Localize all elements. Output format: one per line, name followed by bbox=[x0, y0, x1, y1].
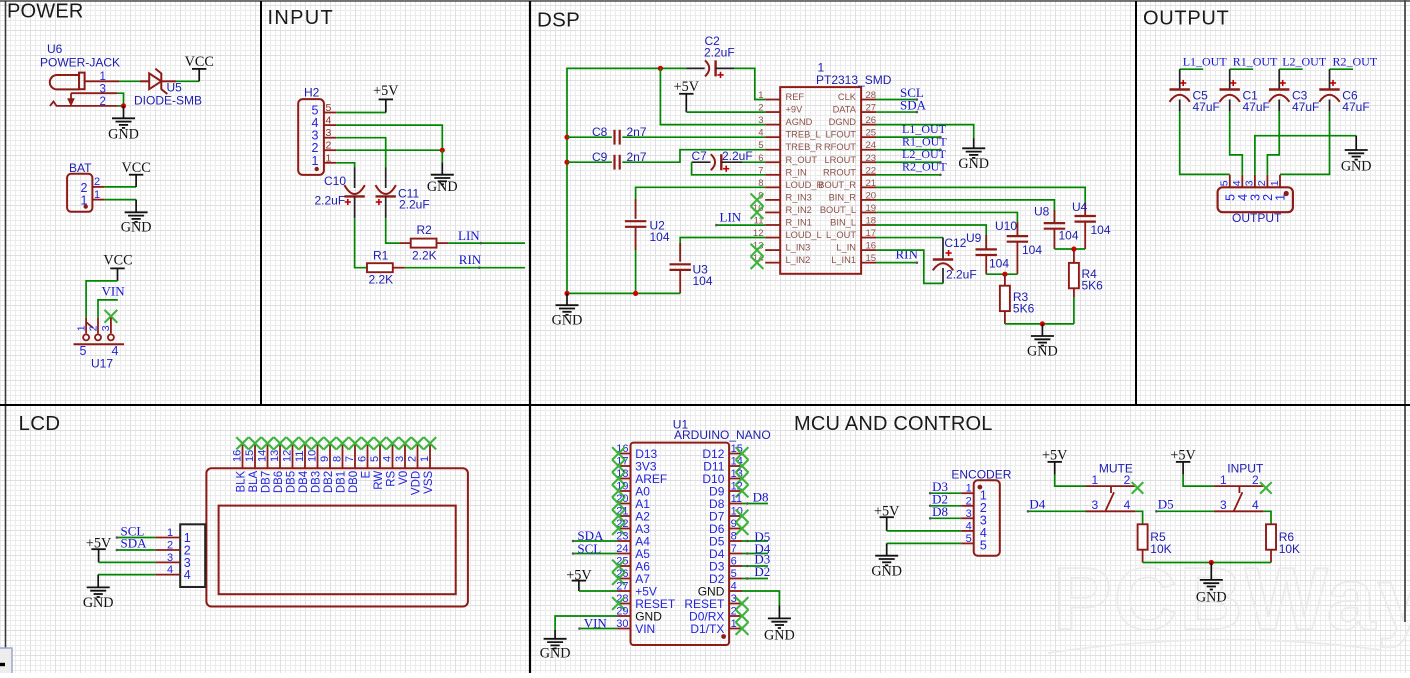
junction switch gnd bbox=[1209, 560, 1214, 565]
PT2313 pin 17 L_OUT bbox=[826, 228, 876, 240]
svg-text:VIN: VIN bbox=[635, 622, 655, 636]
no-connect LCD pin 15 bbox=[249, 437, 261, 449]
no-connect LCD pin 4 bbox=[386, 437, 398, 449]
wire C10 to R1 bbox=[355, 218, 367, 268]
capacitor U4 bbox=[1075, 203, 1096, 249]
svg-text:4: 4 bbox=[1252, 498, 1259, 512]
no-connect LCD pin 6 bbox=[361, 437, 373, 449]
svg-text:LCD: LCD bbox=[19, 412, 61, 435]
power flag VCC (BAT) bbox=[122, 160, 151, 187]
junction node jack bbox=[121, 103, 126, 108]
svg-text:1: 1 bbox=[100, 71, 106, 83]
svg-text:C10: C10 bbox=[324, 174, 346, 188]
net label D3 (mcu) bbox=[742, 565, 768, 567]
svg-text:3: 3 bbox=[100, 83, 106, 95]
svg-text:D1/TX: D1/TX bbox=[690, 622, 724, 636]
svg-text:2: 2 bbox=[1124, 473, 1131, 487]
no-connect pin 3 bbox=[736, 597, 749, 610]
svg-text:16: 16 bbox=[232, 450, 244, 462]
ARDUINO pin 1 D1/TX bbox=[690, 618, 742, 636]
svg-text:15: 15 bbox=[244, 450, 256, 462]
svg-text:2: 2 bbox=[167, 540, 173, 552]
svg-text:3: 3 bbox=[394, 456, 406, 462]
capacitor C9 bbox=[615, 155, 620, 170]
wire pin2 to node bbox=[117, 105, 124, 107]
ARDUINO pin 19 A0 bbox=[616, 481, 650, 499]
ARDUINO pin 12 D9 bbox=[709, 481, 743, 499]
svg-text:D5: D5 bbox=[1158, 496, 1174, 511]
H2 pin 4 stub bbox=[324, 124, 336, 126]
ground mcu right bbox=[764, 605, 795, 643]
svg-text:2.2uF: 2.2uF bbox=[315, 194, 346, 208]
OUTPUT pin 2 stub bbox=[1266, 175, 1268, 188]
H2 pin 3 stub bbox=[324, 137, 336, 139]
wire pin4 to ground bbox=[742, 591, 779, 605]
LCD module outer body bbox=[206, 468, 468, 606]
ground DSP right bbox=[1027, 324, 1058, 360]
OUTPUT pin 5 stub bbox=[1229, 175, 1231, 188]
svg-text:2.2K: 2.2K bbox=[412, 249, 437, 263]
svg-text:R1: R1 bbox=[373, 249, 389, 263]
svg-text:VSS: VSS bbox=[423, 470, 435, 493]
svg-text:3: 3 bbox=[1244, 180, 1256, 186]
svg-text:RIN: RIN bbox=[896, 246, 919, 261]
ARDUINO pin 13 D10 bbox=[702, 468, 742, 486]
OUTPUT pin 1 stub bbox=[1279, 175, 1281, 188]
PT2313 pin 14 L_IN2 bbox=[753, 253, 810, 265]
svg-text:1: 1 bbox=[731, 618, 737, 630]
wire C11 to R2 bbox=[386, 218, 400, 243]
no-connect pin 10 bbox=[736, 510, 749, 523]
ARDUINO pin 17 3V3 bbox=[616, 456, 657, 474]
ENCODER pin-1 mark bbox=[978, 485, 983, 490]
PT2313 pin 7 R_IN bbox=[758, 165, 806, 177]
svg-text:8: 8 bbox=[731, 531, 737, 543]
no-connect pin 16 bbox=[612, 447, 625, 460]
svg-text:1: 1 bbox=[1269, 180, 1281, 186]
net label D5 (mcu) bbox=[742, 540, 768, 542]
wire BAT pin1 to GND bbox=[104, 199, 136, 201]
svg-text:5K6: 5K6 bbox=[1013, 302, 1035, 316]
svg-text:4: 4 bbox=[167, 564, 173, 576]
power jack pin 1 stub bbox=[85, 80, 119, 82]
BAT pin 2 stub bbox=[92, 186, 104, 188]
switch MUTE bbox=[1086, 486, 1136, 511]
svg-text:3: 3 bbox=[1092, 498, 1099, 512]
wire U8-U4 bottom rail bbox=[1054, 248, 1085, 250]
svg-text:3: 3 bbox=[326, 127, 332, 139]
ground OUTPUT bbox=[1341, 136, 1372, 175]
svg-text:5: 5 bbox=[731, 568, 737, 580]
net label D3 (encoder) bbox=[930, 492, 961, 494]
ARDUINO pin 28 RESET bbox=[616, 593, 676, 611]
wire H2 pin4 to gnd node bbox=[336, 125, 442, 150]
svg-text:23: 23 bbox=[616, 531, 628, 543]
svg-text:19: 19 bbox=[866, 203, 877, 214]
svg-text:8: 8 bbox=[332, 456, 344, 462]
ARDUINO pin 30 VIN bbox=[616, 618, 655, 636]
capacitor C12 bbox=[933, 238, 953, 284]
net label D2 (encoder) bbox=[930, 505, 961, 507]
PT2313 pin 13 L_IN3 bbox=[753, 241, 810, 253]
svg-text:U5: U5 bbox=[167, 81, 183, 95]
wire C1 to OUTPUT pin4 bbox=[1230, 111, 1243, 175]
svg-text:DB4: DB4 bbox=[298, 470, 310, 493]
PT2313 pin 15 L_IN1 bbox=[831, 253, 876, 265]
svg-text:23: 23 bbox=[866, 153, 877, 164]
PT2313 pin 6 R_OUT bbox=[758, 153, 817, 165]
svg-text:RW: RW bbox=[373, 471, 385, 490]
wire +5V to pin3 bbox=[99, 561, 156, 563]
svg-text:15: 15 bbox=[866, 253, 877, 264]
no-connect LCD pin 12 bbox=[286, 437, 298, 449]
no-connect pin 12 bbox=[736, 485, 749, 498]
power flag +5V (DSP) bbox=[674, 79, 700, 112]
capacitor U3 bbox=[670, 243, 691, 293]
wire gnd rail bottom bbox=[567, 292, 680, 294]
svg-text:2.2uF: 2.2uF bbox=[946, 268, 977, 282]
ARDUINO pin 15 D12 bbox=[702, 443, 742, 461]
power flag +5V (LCD) bbox=[86, 536, 112, 563]
svg-text:5: 5 bbox=[326, 102, 332, 114]
ENCODER pin 4 stub bbox=[961, 530, 974, 532]
H2 pin-1 mark bbox=[315, 167, 319, 171]
svg-text:BIN_R: BIN_R bbox=[829, 192, 857, 202]
svg-text:2.2uF: 2.2uF bbox=[722, 149, 753, 163]
ARDUINO pin 7 D4 bbox=[709, 543, 742, 561]
svg-text:RS: RS bbox=[386, 470, 398, 486]
no-connect pin 13 bbox=[736, 472, 749, 485]
svg-text:2: 2 bbox=[87, 325, 99, 331]
svg-text:7: 7 bbox=[731, 543, 737, 555]
H2 pin 1 stub bbox=[324, 162, 336, 164]
resistor R4 bbox=[1069, 249, 1079, 324]
svg-text:2.2K: 2.2K bbox=[369, 273, 394, 287]
no-connect pin 18 bbox=[612, 472, 625, 485]
LCD pin 3 stub bbox=[404, 444, 406, 469]
wire +5V to encoder pin4 bbox=[887, 530, 961, 532]
no-connect pin 1 bbox=[736, 622, 749, 635]
switch U17 bbox=[74, 318, 125, 345]
svg-text:R_OUT: R_OUT bbox=[786, 155, 818, 165]
svg-text:22: 22 bbox=[866, 165, 877, 176]
svg-text:SDA: SDA bbox=[121, 536, 148, 551]
wire VCC to U17 pin1 bbox=[86, 281, 117, 318]
PT2313 pin 2 +9V bbox=[758, 103, 803, 115]
PT2313 pin 3 AGND bbox=[758, 115, 812, 127]
ground jack bbox=[108, 106, 139, 143]
svg-text:E: E bbox=[361, 470, 373, 478]
svg-text:29: 29 bbox=[616, 606, 628, 618]
PT2313 pin 9 R_IN3 bbox=[758, 190, 812, 202]
ARDUINO pin 26 A7 bbox=[616, 568, 650, 586]
svg-text:U8: U8 bbox=[1034, 205, 1050, 219]
ground H2 bbox=[427, 150, 458, 195]
capacitor C7 bbox=[692, 154, 743, 172]
svg-text:RROUT: RROUT bbox=[823, 167, 856, 177]
junction R3 top bbox=[1002, 272, 1007, 277]
wire +5V to pin2 bbox=[686, 111, 765, 113]
ARDUINO pin 10 D7 bbox=[709, 506, 743, 524]
net label D5 (INPUT) bbox=[1156, 510, 1214, 512]
wire +5V to pin27 bbox=[579, 590, 617, 592]
svg-text:R_IN: R_IN bbox=[786, 167, 807, 177]
PT2313 pin 10 R_IN2 bbox=[753, 203, 812, 215]
connector LCD-I2C body bbox=[180, 524, 205, 587]
svg-text:104: 104 bbox=[989, 257, 1009, 271]
svg-text:DB6: DB6 bbox=[273, 471, 285, 493]
svg-text:+5V: +5V bbox=[674, 79, 700, 95]
no-connect pin14 bbox=[751, 256, 764, 269]
sheet top border bbox=[0, 0, 1410, 2]
svg-text:U6: U6 bbox=[47, 42, 63, 56]
svg-text:104: 104 bbox=[693, 274, 713, 288]
svg-text:R_IN3: R_IN3 bbox=[786, 192, 812, 202]
svg-text:GND: GND bbox=[121, 220, 152, 236]
wire MUTE pin4 to R5 bbox=[1135, 511, 1143, 524]
svg-text:9: 9 bbox=[731, 518, 737, 530]
PCBWay watermark bbox=[1048, 549, 1410, 653]
svg-text:LOUD_L: LOUD_L bbox=[786, 230, 822, 240]
PT2313 pin 27 DATA bbox=[833, 103, 877, 115]
svg-text:1: 1 bbox=[966, 483, 972, 495]
svg-text:GND: GND bbox=[1341, 159, 1372, 175]
no-connect LCD pin 11 bbox=[299, 437, 311, 449]
ENCODER pin 1 stub bbox=[961, 492, 974, 494]
no-connect INPUT pin2 bbox=[1260, 482, 1272, 494]
wire C7 to pin6 bbox=[743, 161, 766, 163]
svg-text:VCC: VCC bbox=[103, 253, 132, 269]
svg-text:3: 3 bbox=[100, 325, 112, 331]
svg-text:5: 5 bbox=[966, 533, 972, 545]
svg-text:ARDUINO_NANO: ARDUINO_NANO bbox=[674, 428, 771, 442]
svg-text:L_OUT: L_OUT bbox=[826, 230, 856, 240]
LCD pin 11 stub bbox=[304, 444, 306, 469]
PT2313 pin 25 LFOUT bbox=[826, 128, 877, 140]
UI zoom button fragment bbox=[0, 648, 12, 678]
wire R5-R6 gnd rail bbox=[1143, 562, 1271, 564]
svg-text:1: 1 bbox=[1092, 473, 1099, 487]
ARDUINO pin 11 D8 bbox=[709, 493, 742, 511]
svg-text:VIN: VIN bbox=[584, 615, 608, 630]
ARDUINO pin 20 A1 bbox=[616, 493, 650, 511]
svg-text:47uF: 47uF bbox=[1193, 100, 1220, 114]
svg-text:VDD: VDD bbox=[411, 471, 423, 495]
svg-text:104: 104 bbox=[1059, 229, 1079, 243]
wire pin19 to U10 bbox=[876, 212, 1017, 235]
ARDUINO pin 4 GND bbox=[698, 581, 742, 599]
svg-text:GND: GND bbox=[1196, 590, 1227, 606]
section divider horizontal bbox=[0, 404, 1410, 406]
svg-text:+9V: +9V bbox=[786, 105, 804, 115]
svg-text:POWER: POWER bbox=[7, 1, 84, 23]
OUTPUT pin-1 mark bbox=[1284, 191, 1289, 196]
svg-text:BLK: BLK bbox=[236, 470, 248, 492]
svg-text:2: 2 bbox=[731, 606, 737, 618]
svg-text:GND: GND bbox=[1027, 344, 1058, 360]
wire +5V to MUTE pin1 bbox=[1055, 475, 1086, 486]
wire R3-R4 gnd rail bbox=[1005, 323, 1074, 325]
no-connect pin9 bbox=[751, 194, 764, 207]
svg-text:GND: GND bbox=[552, 313, 583, 329]
H2 pin 2 stub bbox=[324, 149, 336, 151]
LCD pin 14 stub bbox=[267, 444, 269, 469]
wire R2 to LIN bbox=[448, 242, 525, 244]
svg-text:DGND: DGND bbox=[829, 117, 857, 127]
wire H2 pin3 to C11 bbox=[336, 138, 386, 168]
svg-text:R_IN1: R_IN1 bbox=[786, 218, 812, 228]
no-connect pin 19 bbox=[612, 485, 625, 498]
svg-text:C12: C12 bbox=[944, 236, 966, 250]
ARDUINO pin 3 RESET bbox=[684, 593, 742, 611]
PT2313 pin 5 TREB_R bbox=[758, 140, 822, 152]
PT2313 pin 12 LOUD_L bbox=[753, 228, 822, 240]
net label D4 (mcu) bbox=[742, 553, 768, 555]
svg-text:L1_OUT: L1_OUT bbox=[1183, 54, 1228, 68]
resistor R6 bbox=[1266, 524, 1276, 562]
ARDUINO pin 23 A4 bbox=[616, 531, 650, 549]
ENCODER pin 2 stub bbox=[961, 505, 974, 507]
PT2313 pin 4 TREB_L bbox=[758, 128, 820, 140]
resistor R1 bbox=[367, 263, 393, 272]
wire U9-U10 bottom rail bbox=[986, 273, 1017, 275]
wire encoder pin5 to ground bbox=[887, 542, 961, 544]
no-connect LCD pin 7 bbox=[349, 437, 361, 449]
divider POWER|INPUT bbox=[260, 1, 262, 405]
LCD-I2C pin 1 stub bbox=[155, 537, 180, 539]
no-connect pin 17 bbox=[612, 460, 625, 473]
ARDUINO pin 22 A3 bbox=[616, 518, 650, 536]
svg-text:DB2: DB2 bbox=[323, 471, 335, 493]
no-connect pin 25 bbox=[612, 560, 625, 573]
svg-text:5K6: 5K6 bbox=[1082, 279, 1104, 293]
svg-text:VCC: VCC bbox=[185, 54, 214, 70]
svg-text:REF: REF bbox=[786, 92, 805, 102]
ARDUINO pin 5 D2 bbox=[709, 568, 742, 586]
svg-text:DSP: DSP bbox=[537, 9, 580, 32]
H2 pin 5 stub bbox=[324, 112, 336, 114]
svg-text:+5V: +5V bbox=[373, 83, 399, 99]
wire pin8 to U2 bbox=[636, 187, 766, 218]
svg-text:4: 4 bbox=[382, 456, 394, 462]
LCD pin 2 stub bbox=[417, 444, 419, 469]
svg-text:R1_OUT: R1_OUT bbox=[1233, 54, 1278, 68]
svg-text:OUTPUT: OUTPUT bbox=[1143, 8, 1229, 30]
svg-text:4: 4 bbox=[326, 115, 332, 127]
svg-text:17: 17 bbox=[866, 228, 877, 239]
svg-text:10K: 10K bbox=[1150, 542, 1171, 556]
LCD pin 1 stub bbox=[429, 444, 431, 469]
capacitor C10 bbox=[344, 168, 364, 219]
OUTPUT pin 4 stub bbox=[1241, 175, 1243, 188]
capacitor C3 bbox=[1269, 69, 1289, 111]
no-connect LCD pin 16 bbox=[236, 437, 248, 449]
net label D2 (mcu) bbox=[742, 578, 768, 580]
svg-text:LIN: LIN bbox=[458, 228, 480, 243]
no-connect LCD pin 9 bbox=[324, 437, 336, 449]
switch INPUT bbox=[1214, 486, 1264, 511]
net label D8 (encoder) bbox=[930, 517, 961, 519]
wire LIN to pin11 bbox=[716, 224, 765, 226]
svg-text:BIN_L: BIN_L bbox=[830, 218, 856, 228]
LCD pin 4 stub bbox=[392, 444, 394, 469]
svg-text:104: 104 bbox=[1091, 223, 1111, 237]
ARDUINO pin 24 A5 bbox=[616, 543, 650, 561]
svg-text:L_IN2: L_IN2 bbox=[786, 255, 811, 265]
wire C8 line bbox=[567, 136, 612, 138]
LCD pin 15 stub bbox=[254, 444, 256, 469]
net label D4 (MUTE) bbox=[1028, 510, 1086, 512]
no-connect pin 9 bbox=[736, 522, 749, 535]
wire +9V rail top bbox=[567, 68, 686, 293]
no-connect pin13 bbox=[751, 244, 764, 257]
wire C9 line bbox=[567, 161, 612, 163]
svg-text:2.2uF: 2.2uF bbox=[704, 46, 735, 60]
net label SDA bbox=[117, 549, 155, 551]
net label D8 (mcu) bbox=[742, 503, 768, 505]
no-connect pin10 bbox=[751, 206, 764, 219]
PT2313 pin 22 RROUT bbox=[823, 165, 876, 177]
svg-text:CLK: CLK bbox=[838, 92, 857, 102]
svg-text:TREB_L: TREB_L bbox=[786, 130, 821, 140]
capacitor C6 bbox=[1319, 69, 1339, 111]
svg-text:3: 3 bbox=[1220, 498, 1227, 512]
svg-text:DB1: DB1 bbox=[336, 471, 348, 493]
wire GND to pin4 bbox=[98, 574, 155, 576]
svg-text:3: 3 bbox=[167, 552, 173, 564]
PT2313 pin 16 L_IN bbox=[836, 241, 876, 253]
no-connect MUTE pin2 bbox=[1132, 482, 1144, 494]
wire DGND pin26 to ground bbox=[876, 125, 974, 139]
ARDUINO pin 9 D6 bbox=[709, 518, 742, 536]
power jack U6 barrel bbox=[50, 73, 85, 90]
svg-text:GND: GND bbox=[540, 646, 571, 662]
wire H2 pin2 to gnd node bbox=[336, 149, 442, 151]
svg-text:12: 12 bbox=[282, 450, 294, 462]
wire C5 to OUTPUT pin5 bbox=[1180, 111, 1230, 174]
svg-text:30: 30 bbox=[616, 618, 628, 630]
net label SCL bbox=[876, 99, 917, 101]
no-connect pin 20 bbox=[612, 497, 625, 510]
svg-text:R2_OUT: R2_OUT bbox=[902, 160, 947, 174]
wire pin21 to U4 bbox=[876, 187, 1085, 202]
wire C3 to OUTPUT pin2 bbox=[1267, 111, 1279, 175]
svg-text:2: 2 bbox=[966, 495, 972, 507]
svg-text:4: 4 bbox=[1124, 498, 1131, 512]
svg-text:47uF: 47uF bbox=[1243, 100, 1270, 114]
svg-text:DB7: DB7 bbox=[261, 471, 273, 493]
svg-text:C8: C8 bbox=[592, 125, 608, 139]
BAT pin-1 mark bbox=[84, 204, 88, 208]
svg-text:5: 5 bbox=[80, 344, 87, 358]
PT2313 pin 1 REF bbox=[758, 90, 804, 102]
svg-text:V0: V0 bbox=[398, 471, 410, 485]
svg-text:OUTPUT: OUTPUT bbox=[1232, 211, 1282, 225]
svg-text:POWER-JACK: POWER-JACK bbox=[40, 56, 120, 70]
svg-text:2.2uF: 2.2uF bbox=[399, 198, 430, 212]
no-connect LCD pin 1 bbox=[424, 437, 436, 449]
ground BAT bbox=[121, 200, 152, 236]
svg-text:DB0: DB0 bbox=[348, 471, 360, 493]
PT2313 pin 21 BOUT_R bbox=[818, 178, 876, 190]
svg-text:L2_OUT: L2_OUT bbox=[1282, 54, 1327, 68]
LCD-I2C pin 3 stub bbox=[155, 561, 180, 563]
LCD screen inner rect bbox=[219, 506, 456, 595]
capacitor U8 bbox=[1044, 210, 1065, 249]
ARDUINO pin-1 mark bbox=[721, 634, 726, 639]
svg-text:U10: U10 bbox=[995, 219, 1017, 233]
ARDUINO pin 2 D0/RX bbox=[689, 606, 742, 624]
